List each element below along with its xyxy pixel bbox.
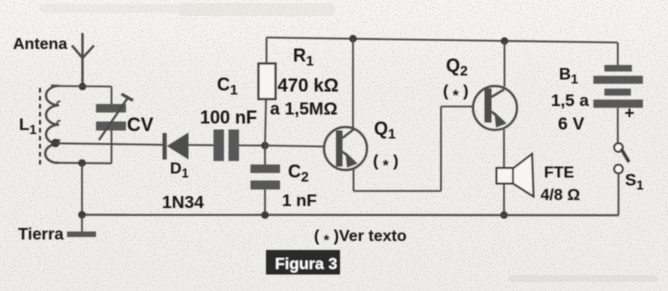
wire tank top <box>52 85 112 88</box>
node R1/C2/base junction <box>261 142 269 150</box>
speaker FTE <box>497 154 534 215</box>
wire to Q2 base <box>441 106 473 108</box>
svg-text:470 kΩ: 470 kΩ <box>278 75 339 96</box>
svg-text:6 V: 6 V <box>558 114 585 134</box>
core dashed line <box>39 88 41 168</box>
svg-text:1N34: 1N34 <box>162 192 204 212</box>
wire Q1 collector up <box>352 39 354 129</box>
wire Q2 collector up <box>504 41 506 87</box>
inductor L1 <box>45 86 59 163</box>
antenna symbol <box>72 33 94 87</box>
battery B1 <box>593 43 643 144</box>
diode D1 <box>163 133 189 160</box>
svg-text:100 nF: 100 nF <box>200 108 257 128</box>
node Q1 collector / rail <box>349 35 357 43</box>
wire diode to C1 <box>189 144 215 146</box>
node Q2 collector / rail <box>501 37 509 45</box>
capacitor CV <box>96 87 133 164</box>
node coil tap <box>51 139 60 148</box>
wire C1 to node <box>239 144 265 146</box>
wire riser to Q2 base <box>440 107 442 192</box>
wire down to ground rail <box>81 163 83 215</box>
Figura 3 caption box <box>266 250 340 275</box>
bottom rail wire <box>82 214 619 216</box>
wire switch to bottom rail <box>618 173 620 215</box>
transistor Q1 <box>324 39 367 191</box>
wire Q2 emitter down <box>503 130 505 169</box>
svg-text:Figura 3: Figura 3 <box>275 256 337 273</box>
svg-text:4/8 Ω: 4/8 Ω <box>541 187 581 204</box>
svg-text:Antena: Antena <box>13 36 67 53</box>
capacitor C1 <box>214 130 240 162</box>
capacitor C2 <box>251 146 281 216</box>
wire emitter run <box>354 190 442 192</box>
transistor Q2 <box>473 41 517 169</box>
svg-text:FTE: FTE <box>544 165 575 182</box>
switch S1 <box>614 143 629 173</box>
svg-text:CV: CV <box>127 115 154 136</box>
node C2 / bottom rail <box>261 211 269 219</box>
wire Q1 emitter down <box>353 170 355 192</box>
node ground junction <box>78 211 86 219</box>
wire tank bottom <box>57 162 112 165</box>
resistor R1 <box>259 38 276 146</box>
svg-text:1 nF: 1 nF <box>282 191 317 210</box>
svg-text:1,5 a: 1,5 a <box>551 91 589 110</box>
svg-text:Tierra: Tierra <box>18 226 64 244</box>
wire node to Q1 base <box>265 146 324 147</box>
svg-text:+: + <box>625 104 635 123</box>
top rail wire <box>267 38 618 43</box>
node tank bottom <box>78 159 86 167</box>
svg-text:( * )Ver texto: ( * )Ver texto <box>314 228 407 248</box>
wire tap to diode <box>56 143 164 145</box>
ground Tierra <box>81 215 83 233</box>
node speaker / bottom rail <box>500 211 508 219</box>
svg-text:a 1,5MΩ: a 1,5MΩ <box>270 99 338 119</box>
node antenna/coil-top <box>79 83 87 91</box>
